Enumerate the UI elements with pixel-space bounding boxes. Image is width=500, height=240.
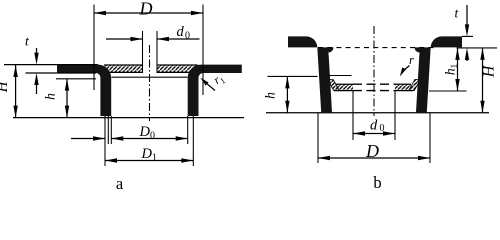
svg-text:r: r: [409, 53, 414, 67]
bottom reference line (figure a): [13, 117, 244, 119]
svg-text:h: h: [43, 93, 58, 100]
bottom reference line (figure b): [266, 112, 489, 114]
centerline (figure b): [373, 26, 375, 116]
dimension H (figure b): [480, 48, 497, 113]
svg-text:H: H: [481, 64, 498, 78]
dimension h (figure a): [43, 79, 70, 118]
extension line sheet bottom (figure a): [26, 72, 97, 74]
reference line between walls (figure a): [112, 76, 188, 78]
dimension D (figure b): [318, 113, 430, 163]
flange and wall right (figure b): [415, 36, 463, 112]
dimension h1 (figure b): [443, 48, 460, 91]
reference line h1 bottom (figure b): [429, 90, 467, 92]
dimension t (figure b): [455, 5, 470, 61]
leader r1 (figure a): [200, 70, 227, 90]
cup bottom strip left of hole (figure b): [334, 84, 353, 90]
flanged part left wall and flange (figure a): [57, 65, 111, 116]
dimension D (figure a): [94, 0, 203, 95]
dimension h (figure b): [263, 76, 290, 112]
svg-text:b: b: [373, 173, 381, 192]
svg-text:D: D: [141, 146, 153, 162]
dimension H (figure a): [0, 65, 18, 118]
label b (figure b): [373, 173, 381, 192]
svg-text:0: 0: [185, 31, 190, 42]
cup bottom strip right of hole (figure b): [395, 84, 413, 90]
dimension D1 (figure a): [105, 146, 193, 164]
leader r (figure b): [400, 53, 414, 77]
dimension t (figure a): [25, 34, 39, 95]
flanged part right wall and flange (figure a): [188, 65, 242, 116]
slanted corner left (figure b): [328, 80, 340, 91]
svg-text:D: D: [139, 0, 153, 19]
svg-text:D: D: [139, 124, 151, 140]
svg-text:0: 0: [380, 123, 385, 134]
extension line flange top right (figure b): [462, 35, 473, 37]
extension lines below walls (figure a): [105, 116, 193, 166]
dashed hole edge bottom (figure b): [353, 90, 395, 92]
blank strip with pre-punched hole d0 (figure a): [104, 65, 198, 72]
dimension d0 (figure b): [353, 91, 395, 140]
svg-text:1: 1: [152, 153, 157, 164]
flange and wall left (figure b): [288, 36, 334, 112]
svg-text:a: a: [116, 174, 124, 192]
svg-text:D: D: [365, 141, 379, 161]
svg-text:d: d: [370, 118, 378, 134]
svg-text:H: H: [0, 80, 11, 93]
extension line sheet top (figure a): [4, 64, 98, 66]
extension line flange underside right (figure b): [457, 47, 498, 49]
label a (figure a): [116, 174, 124, 193]
reference line h top (figure b): [268, 75, 318, 77]
reference line below sheet left (figure a): [56, 78, 96, 80]
dashed hole edge top (figure b): [353, 83, 395, 85]
svg-text:h: h: [263, 92, 278, 99]
slanted corner right (figure b): [409, 80, 421, 91]
centerline (figure a): [149, 45, 151, 121]
original bottom line left (figure b): [329, 75, 352, 77]
dimension d0 (figure a): [106, 24, 200, 73]
dashed line at flange underside (figure b): [318, 47, 437, 49]
dimension D0 (figure a): [71, 124, 188, 142]
svg-text:0: 0: [150, 131, 155, 142]
svg-text:d: d: [177, 24, 185, 40]
